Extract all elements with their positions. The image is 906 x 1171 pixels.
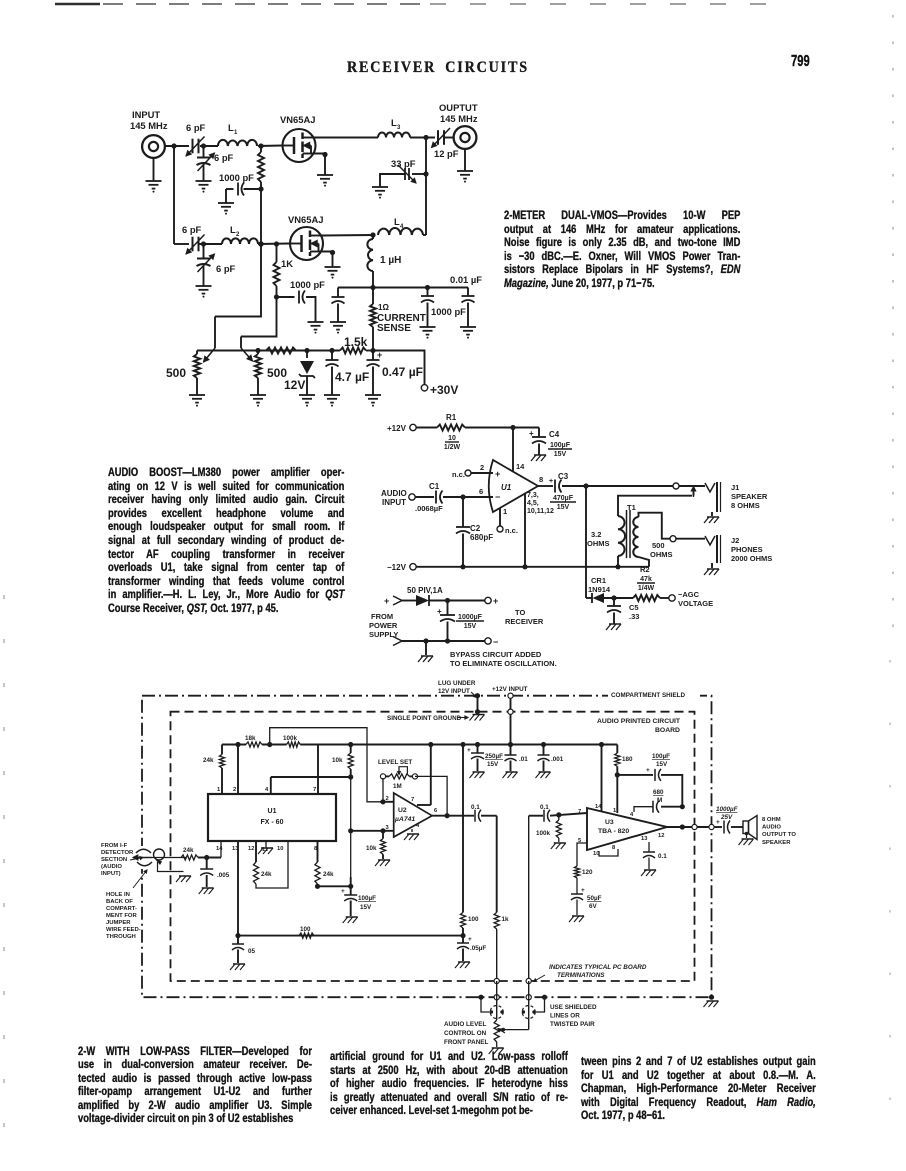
ground .05uF divider — [458, 961, 470, 963]
audio wire to level control — [481, 815, 497, 817]
svg-text:TO: TO — [515, 608, 525, 617]
svg-text:12 pF: 12 pF — [434, 148, 459, 159]
svg-text:24k: 24k — [261, 871, 272, 878]
capacitor C2 680pF — [462, 497, 464, 527]
svg-text:15V: 15V — [557, 504, 570, 511]
resistor 1K — [276, 244, 278, 262]
svg-text:1000µF: 1000µF — [458, 614, 483, 621]
termination circles on shield edge — [494, 995, 499, 1000]
wire pin3 node down — [350, 777, 352, 877]
svg-text:33 pF: 33 pF — [391, 158, 416, 169]
ground .05 left — [233, 963, 245, 965]
wire R1 to pin14/C4 — [465, 427, 539, 429]
svg-text:120: 120 — [582, 869, 593, 876]
capacitor C1 .0068uF — [415, 496, 434, 498]
svg-text:+: + — [716, 819, 720, 826]
svg-text:U1: U1 — [268, 808, 277, 815]
svg-text:OHMS: OHMS — [650, 550, 673, 559]
svg-text:+: + — [493, 596, 498, 606]
resistor 100k to ground — [558, 815, 560, 820]
svg-text:+: + — [437, 607, 442, 616]
wire output junction down — [425, 138, 427, 236]
speaker — [743, 821, 749, 834]
zener diode 12V — [306, 351, 308, 359]
pin 11 ground — [265, 841, 267, 847]
wire Q1 source to ground — [314, 154, 325, 176]
U2 pin4 ground — [411, 829, 413, 832]
ground 100uF bias — [346, 916, 358, 918]
svg-text:C5: C5 — [629, 603, 639, 612]
svg-text:TERMINATIONS: TERMINATIONS — [557, 972, 605, 979]
terminal circle speaker line — [673, 483, 679, 489]
svg-text:8 OHMS: 8 OHMS — [731, 501, 760, 510]
wire pin13 down to bias row — [237, 841, 239, 936]
pin 2 n.c. — [471, 472, 493, 474]
capacitor 100uF 15V (boot) — [617, 774, 653, 776]
potentiometer 500 (Q1 bias) — [194, 354, 200, 378]
resistor 100k — [287, 742, 301, 747]
svg-text:OUTPUT TO: OUTPUT TO — [762, 832, 796, 838]
jack J2 — [705, 536, 715, 545]
svg-text:14: 14 — [595, 804, 602, 810]
svg-text:+: + — [377, 350, 382, 360]
inductor 1 uH (vertical) — [367, 239, 373, 271]
resistor horizontal (bias) — [266, 348, 296, 354]
level set pot 1M — [380, 774, 385, 779]
node L4 left / Q2 drain — [370, 232, 375, 237]
diode CR1 1N914 — [586, 597, 592, 599]
node after C3 — [583, 483, 588, 488]
svg-text:8: 8 — [612, 845, 616, 851]
level pot wiper bracket — [399, 767, 407, 774]
U2 output node — [445, 813, 450, 818]
U2 pin7 supply — [430, 745, 432, 806]
rail junction dots — [267, 742, 272, 747]
svg-text:6 pF: 6 pF — [182, 224, 202, 235]
trimmer capacitor 12 pF — [437, 130, 439, 145]
resistor 120 — [574, 866, 579, 878]
+12V input wire crossing shields — [508, 693, 513, 698]
ground C5 — [609, 623, 621, 625]
primary bottom lead — [617, 556, 619, 567]
pot1 wiper arrow wire — [215, 189, 261, 317]
svg-text:n.c.: n.c. — [452, 470, 465, 479]
capacitor 1000uF 25V output — [714, 826, 722, 828]
svg-text:BOARD: BOARD — [655, 727, 680, 734]
svg-text:INPUT: INPUT — [382, 498, 406, 507]
node L2 out — [258, 241, 263, 246]
svg-text:AUDIO: AUDIO — [381, 489, 407, 498]
wires through shield symbols — [496, 997, 498, 1020]
wire Q1 drain to L3 — [314, 137, 378, 139]
pin 1 n.c. — [499, 508, 501, 526]
svg-text:145 MHz: 145 MHz — [440, 113, 478, 124]
svg-text:JUMPER: JUMPER — [106, 920, 131, 926]
svg-text:100µF: 100µF — [652, 753, 670, 760]
node 100k — [556, 812, 561, 817]
node 1000pF junction row1 — [258, 186, 263, 191]
inductor L4 — [378, 228, 423, 235]
resistor R1 — [437, 425, 465, 431]
terminal AUDIO INPUT — [409, 494, 415, 500]
jack J1 — [705, 483, 715, 492]
capacitor 250uF 15V — [477, 745, 479, 754]
svg-text:0.47 µF: 0.47 µF — [382, 365, 423, 379]
U1 box FX-60 — [208, 794, 336, 841]
svg-text:6 pF: 6 pF — [216, 263, 236, 274]
ground zener — [299, 394, 315, 396]
svg-text:BACK OF: BACK OF — [106, 899, 133, 905]
decoupling rail wire — [338, 287, 468, 289]
svg-text:10: 10 — [277, 846, 283, 852]
capacitor 0.47 uF (polar) — [372, 351, 374, 361]
op-amp U3 triangle TBA-820 — [587, 808, 667, 850]
shield bottom-right ground — [709, 995, 714, 1000]
capacitor C5 .33 — [613, 598, 615, 606]
resistor 24k (U1 pin1) — [221, 745, 223, 755]
node current sense bottom — [370, 348, 375, 353]
svg-text:10,11,12: 10,11,12 — [527, 508, 554, 515]
svg-text:12: 12 — [658, 833, 664, 839]
svg-text:10k: 10k — [332, 757, 343, 764]
svg-text:14: 14 — [216, 846, 223, 852]
svg-text:1N914: 1N914 — [588, 585, 611, 594]
supply rail — [222, 744, 246, 746]
ground 4.7uF — [324, 394, 340, 396]
ground pot1 — [196, 382, 198, 395]
svg-text:FROM I-F: FROM I-F — [101, 843, 128, 849]
variable capacitor 33 pF — [412, 173, 426, 175]
ground C4 — [534, 454, 546, 456]
U2 pin3 wire — [351, 830, 394, 832]
svg-text:0.1: 0.1 — [658, 853, 667, 860]
svg-text:U1: U1 — [501, 483, 512, 492]
svg-text:INPUT: INPUT — [132, 109, 160, 120]
wire L1 to Q1 gate — [258, 145, 282, 148]
wire to pin 14 — [220, 841, 222, 858]
wire +12V to R1 — [416, 427, 437, 429]
wire to J2 — [676, 538, 705, 540]
label COMPARTMENT SHIELD — [608, 689, 700, 699]
capacitor .01 — [510, 745, 512, 756]
svg-text:4,5,: 4,5, — [527, 500, 539, 507]
svg-text:4.7 µF: 4.7 µF — [335, 370, 369, 384]
audio level pot — [494, 1020, 499, 1042]
secondary top lead to J2 — [639, 513, 670, 539]
wire 12pF to output connector — [443, 137, 454, 139]
wire input to 6pF trimmer — [164, 145, 189, 147]
svg-text:180: 180 — [622, 756, 633, 763]
wire trimmer to L1 — [200, 145, 218, 147]
svg-text:680: 680 — [653, 789, 664, 796]
svg-text:BYPASS CIRCUIT ADDED: BYPASS CIRCUIT ADDED — [450, 650, 542, 659]
wire pin8 junction to 100uF — [318, 885, 351, 887]
svg-text:−: − — [495, 492, 500, 502]
bottom bias rail — [197, 350, 340, 352]
svg-text:−: − — [493, 637, 498, 647]
ground below input connector — [153, 158, 155, 181]
terminal +30V — [421, 385, 427, 391]
resistor 180 — [615, 753, 620, 766]
svg-text:47k: 47k — [640, 576, 652, 583]
output coax connector — [454, 126, 477, 149]
svg-text:2: 2 — [386, 796, 389, 802]
resistor 24k input — [181, 855, 198, 860]
ground .01 — [506, 771, 518, 773]
terminal circle phones line — [670, 536, 676, 542]
wire pin 14 — [512, 428, 514, 472]
resistor 1 ohm current sense — [372, 288, 374, 305]
svg-text:24k: 24k — [323, 871, 334, 878]
svg-text:LINES OR: LINES OR — [550, 1012, 580, 1019]
input wire with direction arrow — [133, 857, 152, 859]
ground J1 — [711, 512, 713, 516]
wire ground pins to -12V rail — [524, 494, 526, 567]
svg-text:1k: 1k — [502, 916, 510, 923]
inductor L2 — [222, 238, 258, 244]
svg-text:1000 pF: 1000 pF — [431, 306, 466, 317]
svg-text:7: 7 — [411, 797, 414, 803]
inductor L3 — [378, 133, 410, 138]
svg-text:1 µH: 1 µH — [380, 255, 401, 266]
wires between box edges — [496, 981, 498, 997]
wire pin2 to rail — [237, 745, 239, 795]
input shield ground — [158, 862, 184, 872]
potentiometer 500 (Q2 bias) — [255, 354, 261, 378]
transformer T1 secondary coil — [633, 517, 638, 557]
svg-text:24k: 24k — [183, 847, 194, 854]
ground shunt cap tank2 — [196, 285, 212, 287]
svg-text:C1: C1 — [429, 482, 440, 491]
wire 1uH to decoupling rail — [372, 271, 374, 288]
ground bypass — [425, 641, 427, 655]
wire pin7 to rail — [317, 745, 319, 795]
inductor L1 — [218, 140, 257, 146]
svg-text:.05µF: .05µF — [470, 945, 486, 952]
capacitor 50uF 6V — [571, 893, 583, 895]
op-amp U2 triangle — [394, 793, 432, 837]
jumper loop — [154, 849, 165, 860]
svg-text:2: 2 — [480, 463, 484, 472]
capacitor .001 — [543, 745, 545, 756]
svg-text:1000 pF: 1000 pF — [290, 279, 325, 290]
schematic 2: LM380 audio booster — [369, 413, 772, 668]
svg-text:µA741: µA741 — [394, 816, 415, 823]
node gate1 junction — [258, 143, 263, 148]
svg-text:12V INPUT: 12V INPUT — [438, 688, 470, 695]
resistor vertical at gate 1 — [260, 146, 262, 152]
svg-text:05: 05 — [248, 948, 256, 955]
svg-text:1.5k: 1.5k — [344, 335, 368, 349]
svg-text:OUPTUT: OUPTUT — [439, 102, 478, 113]
svg-text:C3: C3 — [558, 472, 569, 481]
svg-text:VOLTAGE: VOLTAGE — [678, 599, 713, 608]
wire Q2 drain to L4 — [322, 234, 374, 237]
svg-text:.001: .001 — [551, 756, 564, 763]
svg-text:12V: 12V — [284, 378, 305, 392]
svg-text:4: 4 — [630, 812, 634, 818]
svg-text:+12V INPUT: +12V INPUT — [492, 686, 528, 693]
svg-text:6 pF: 6 pF — [214, 152, 234, 163]
svg-text:(AUDIO: (AUDIO — [101, 864, 122, 870]
svg-text:CONTROL ON: CONTROL ON — [444, 1030, 487, 1037]
transistor Q1 VN65AJ — [283, 129, 316, 162]
svg-text:−AGC: −AGC — [678, 590, 700, 599]
node 1K bottom — [274, 294, 279, 299]
termination circles on PCB edge — [494, 978, 499, 983]
bottom chevron (power supply -) — [393, 637, 402, 646]
svg-text:INDICATES TYPICAL PC BOARD: INDICATES TYPICAL PC BOARD — [549, 964, 647, 971]
ground 100k — [558, 838, 560, 842]
svg-text:R1: R1 — [446, 413, 457, 422]
ground 1000pF Q2 — [308, 321, 324, 323]
svg-text:LEVEL SET: LEVEL SET — [378, 759, 412, 766]
svg-text:+: + — [468, 936, 472, 943]
ground .005 — [202, 887, 214, 889]
svg-text:6: 6 — [434, 808, 438, 814]
wire input down to tank 2 — [173, 146, 175, 244]
shielded line symbol right — [522, 1006, 535, 1019]
ground 10k pin3 — [382, 854, 384, 859]
resistor 24k pins 12-10 — [255, 841, 257, 862]
ground below shunt cap tank1 — [196, 180, 212, 182]
schematic 3: 2-W with low-pass filter — [101, 680, 796, 1054]
ground speaker — [746, 834, 748, 839]
svg-text:7,3,: 7,3, — [527, 492, 539, 499]
capacitor .005 — [206, 858, 208, 870]
svg-text:CR1: CR1 — [591, 576, 606, 585]
svg-text:1K: 1K — [281, 258, 293, 269]
shield bond wires — [481, 997, 490, 1012]
svg-text:500: 500 — [652, 541, 665, 550]
svg-text:50 PIV,1A: 50 PIV,1A — [407, 586, 443, 595]
svg-text:1000 pF: 1000 pF — [219, 172, 254, 183]
svg-text:1Ω: 1Ω — [378, 303, 389, 312]
compartment shield box (dash-dot) — [142, 696, 712, 998]
svg-text:+: + — [529, 429, 534, 438]
capacitor 100uF 15V (bias) — [350, 886, 352, 895]
U2 pin2 node — [380, 799, 385, 804]
svg-text:0.01 µF: 0.01 µF — [450, 274, 482, 285]
svg-text:+30V: +30V — [430, 383, 458, 397]
svg-text:3.2: 3.2 — [591, 530, 601, 539]
svg-text:POWER: POWER — [369, 621, 398, 630]
svg-text:TWISTED PAIR: TWISTED PAIR — [550, 1021, 595, 1028]
wire rail to 180 — [616, 745, 618, 754]
U3 pin1 wire — [616, 775, 618, 813]
ground for 1000pF row1 — [225, 189, 227, 203]
svg-text:.005: .005 — [217, 872, 230, 879]
svg-text:SINGLE POINT GROUND: SINGLE POINT GROUND — [387, 715, 462, 722]
ground 250uF — [473, 771, 485, 773]
svg-text:RECEIVER: RECEIVER — [505, 617, 544, 626]
svg-text:680pF: 680pF — [470, 533, 493, 542]
svg-text:100k: 100k — [283, 735, 298, 742]
svg-text:2000 OHMS: 2000 OHMS — [731, 554, 772, 563]
svg-text:HOLE IN: HOLE IN — [106, 892, 130, 898]
svg-text:0.1: 0.1 — [540, 804, 549, 811]
capacitor .05uF divider — [457, 942, 469, 944]
trimmer capacitor 6pF (series, input tank 1) — [192, 139, 194, 154]
U3 pin14 supply wire — [601, 745, 603, 812]
capacitor 0.01 uF — [467, 288, 469, 297]
svg-text:8 OHM: 8 OHM — [762, 817, 781, 823]
svg-text:SUPPLY: SUPPLY — [369, 630, 398, 639]
svg-text:TBA - 820: TBA - 820 — [598, 828, 629, 835]
wire to J1 jack — [679, 485, 705, 487]
svg-text:TO ELIMINATE OSCILLATION.: TO ELIMINATE OSCILLATION. — [450, 659, 557, 668]
svg-text:100: 100 — [468, 916, 479, 923]
single point ground lug — [475, 693, 480, 698]
svg-text:6 pF: 6 pF — [186, 122, 206, 133]
op-amp U1 LM380 triangle — [489, 460, 538, 512]
svg-text:U2: U2 — [398, 807, 407, 814]
svg-text:MENT FOR: MENT FOR — [106, 913, 138, 919]
svg-text:1/2W: 1/2W — [444, 444, 461, 451]
svg-text:n.c.: n.c. — [505, 526, 518, 535]
schematic 1: 2-meter dual-VMOS amplifier — [130, 102, 482, 407]
svg-text:OHMS: OHMS — [587, 539, 610, 548]
svg-text:LUG UNDER: LUG UNDER — [438, 680, 476, 687]
shunt variable capacitor 6pF (tank 2) — [203, 244, 205, 259]
output terminations circles — [692, 824, 697, 829]
svg-text:+12V: +12V — [387, 424, 407, 433]
pin 6 input — [466, 496, 493, 498]
svg-text:VN65AJ: VN65AJ — [288, 214, 323, 225]
ground J2 — [711, 563, 713, 568]
divider vertical wire — [462, 745, 464, 913]
resistor 100 (bias row) — [299, 933, 314, 938]
wire trimmer2 to L2 — [198, 243, 223, 245]
input feedthrough hole — [138, 846, 147, 869]
svg-text:4: 4 — [416, 823, 420, 829]
wire C3 node down to AGC row — [585, 486, 587, 598]
svg-text:+: + — [646, 767, 650, 774]
capacitor .05 (bias left) — [237, 936, 239, 944]
resistor 10k (level) — [348, 753, 353, 769]
svg-text:.0068µF: .0068µF — [415, 504, 443, 513]
svg-text:+: + — [581, 887, 585, 894]
svg-text:AUDIO LEVEL: AUDIO LEVEL — [444, 1021, 486, 1028]
bypass capacitor (unlabeled) on rail — [337, 288, 339, 298]
svg-text:2: 2 — [236, 232, 240, 238]
svg-text:100µF: 100µF — [358, 895, 376, 902]
svg-text:J1: J1 — [731, 483, 739, 492]
svg-text:C4: C4 — [549, 430, 560, 439]
capacitor 680/M feedback — [680, 804, 685, 809]
svg-text:3: 3 — [397, 125, 401, 131]
svg-text:145 MHz: 145 MHz — [130, 120, 168, 131]
bypass wire divider to U2 pin2 — [270, 728, 380, 802]
svg-text:6: 6 — [479, 487, 483, 496]
shielded line symbol left — [490, 1006, 503, 1019]
svg-text:SENSE: SENSE — [377, 323, 411, 334]
shunt variable capacitor 6pF (tank 1) — [203, 146, 205, 158]
svg-text:FX - 60: FX - 60 — [261, 819, 284, 826]
svg-text:1/4W: 1/4W — [638, 585, 655, 592]
svg-text:THROUGH: THROUGH — [106, 934, 136, 940]
svg-text:250µF: 250µF — [485, 753, 503, 760]
svg-text:10: 10 — [448, 435, 456, 442]
svg-text:13: 13 — [641, 836, 648, 842]
capacitor 1000uF 15V (bypass) — [447, 601, 449, 616]
capacitor 1000 pF (Q2 gate) — [277, 296, 295, 298]
svg-text:470µF: 470µF — [553, 495, 574, 502]
wire pin4 up — [270, 777, 272, 794]
capacitor C4 100uF 15V — [538, 428, 540, 438]
transformer T1 primary coil — [618, 516, 625, 556]
svg-text:+: + — [341, 888, 345, 895]
